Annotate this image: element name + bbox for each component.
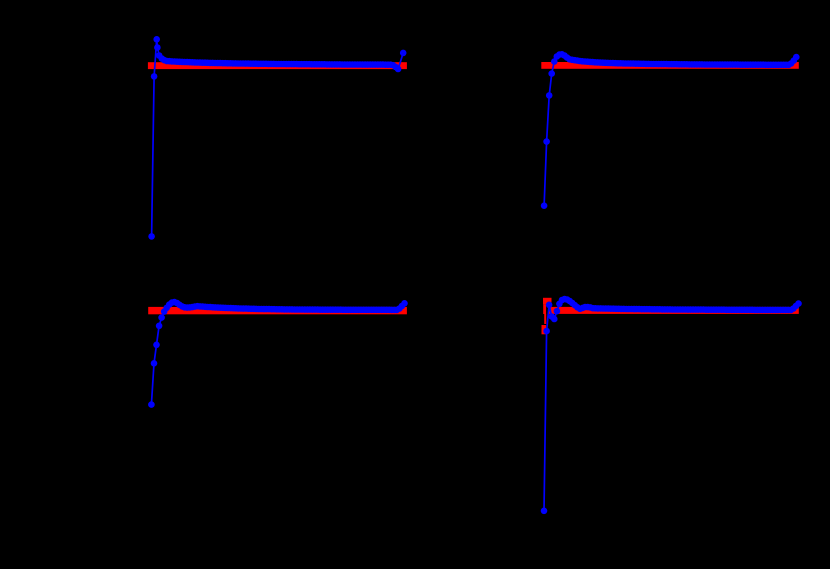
top-right blue series line: [544, 54, 796, 205]
bottom-left blue series line: [151, 302, 404, 405]
bottom-right blue series line: [544, 299, 799, 511]
bottom-right red reference transient dashes: [542, 298, 552, 335]
top-right blue series markers: [541, 51, 800, 209]
top-right red reference bar: [541, 62, 799, 69]
top-left blue series markers: [148, 36, 406, 240]
top-left red reference bar: [148, 62, 407, 69]
bottom-left blue series markers: [148, 299, 408, 408]
bottom-right blue series markers: [541, 296, 802, 514]
bottom-right red reference bar: [549, 307, 799, 314]
top-left blue series line: [152, 39, 404, 236]
bottom-left red reference bar: [148, 307, 407, 314]
